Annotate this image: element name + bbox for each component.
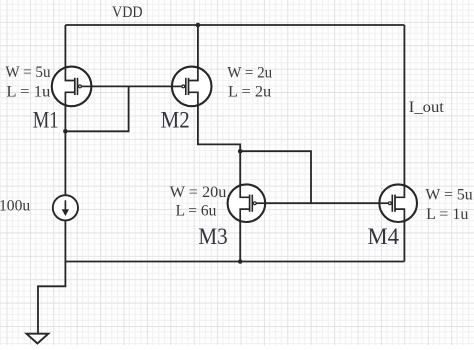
svg-text:VDD: VDD bbox=[112, 4, 143, 21]
svg-text:M4: M4 bbox=[368, 224, 400, 249]
svg-text:W = 5u: W = 5u bbox=[5, 64, 50, 81]
svg-text:100u: 100u bbox=[0, 198, 30, 215]
svg-text:W = 2u: W = 2u bbox=[227, 65, 272, 82]
svg-text:L = 1u: L = 1u bbox=[6, 84, 50, 101]
svg-text:L = 1u: L = 1u bbox=[426, 206, 469, 223]
svg-text:L = 2u: L = 2u bbox=[228, 83, 271, 100]
svg-text:L = 6u: L = 6u bbox=[176, 203, 217, 220]
svg-text:W = 5u: W = 5u bbox=[425, 187, 473, 204]
svg-text:M2: M2 bbox=[161, 107, 190, 132]
svg-text:I_out: I_out bbox=[409, 99, 445, 116]
svg-text:M3: M3 bbox=[198, 224, 227, 249]
svg-text:W = 20u: W = 20u bbox=[170, 184, 227, 201]
svg-text:M1: M1 bbox=[33, 108, 59, 133]
